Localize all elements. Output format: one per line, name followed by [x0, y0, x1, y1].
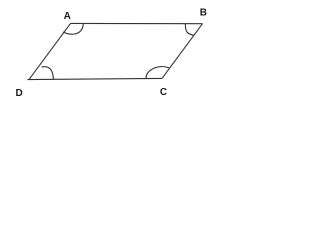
svg-text:B: B	[200, 8, 207, 19]
svg-text:C: C	[160, 87, 167, 98]
angle arc at vertex C	[146, 67, 169, 79]
angle arc at vertex B	[185, 24, 194, 36]
side AD (left edge)	[29, 23, 71, 79]
side DC (bottom edge)	[27, 78, 162, 79]
angle arc at vertex D	[42, 67, 54, 80]
angle arc at vertex A	[63, 24, 83, 34]
side AB (top edge)	[71, 22, 203, 24]
side BC (right edge)	[162, 24, 203, 79]
svg-text:D: D	[15, 88, 22, 99]
svg-text:A: A	[64, 11, 71, 22]
